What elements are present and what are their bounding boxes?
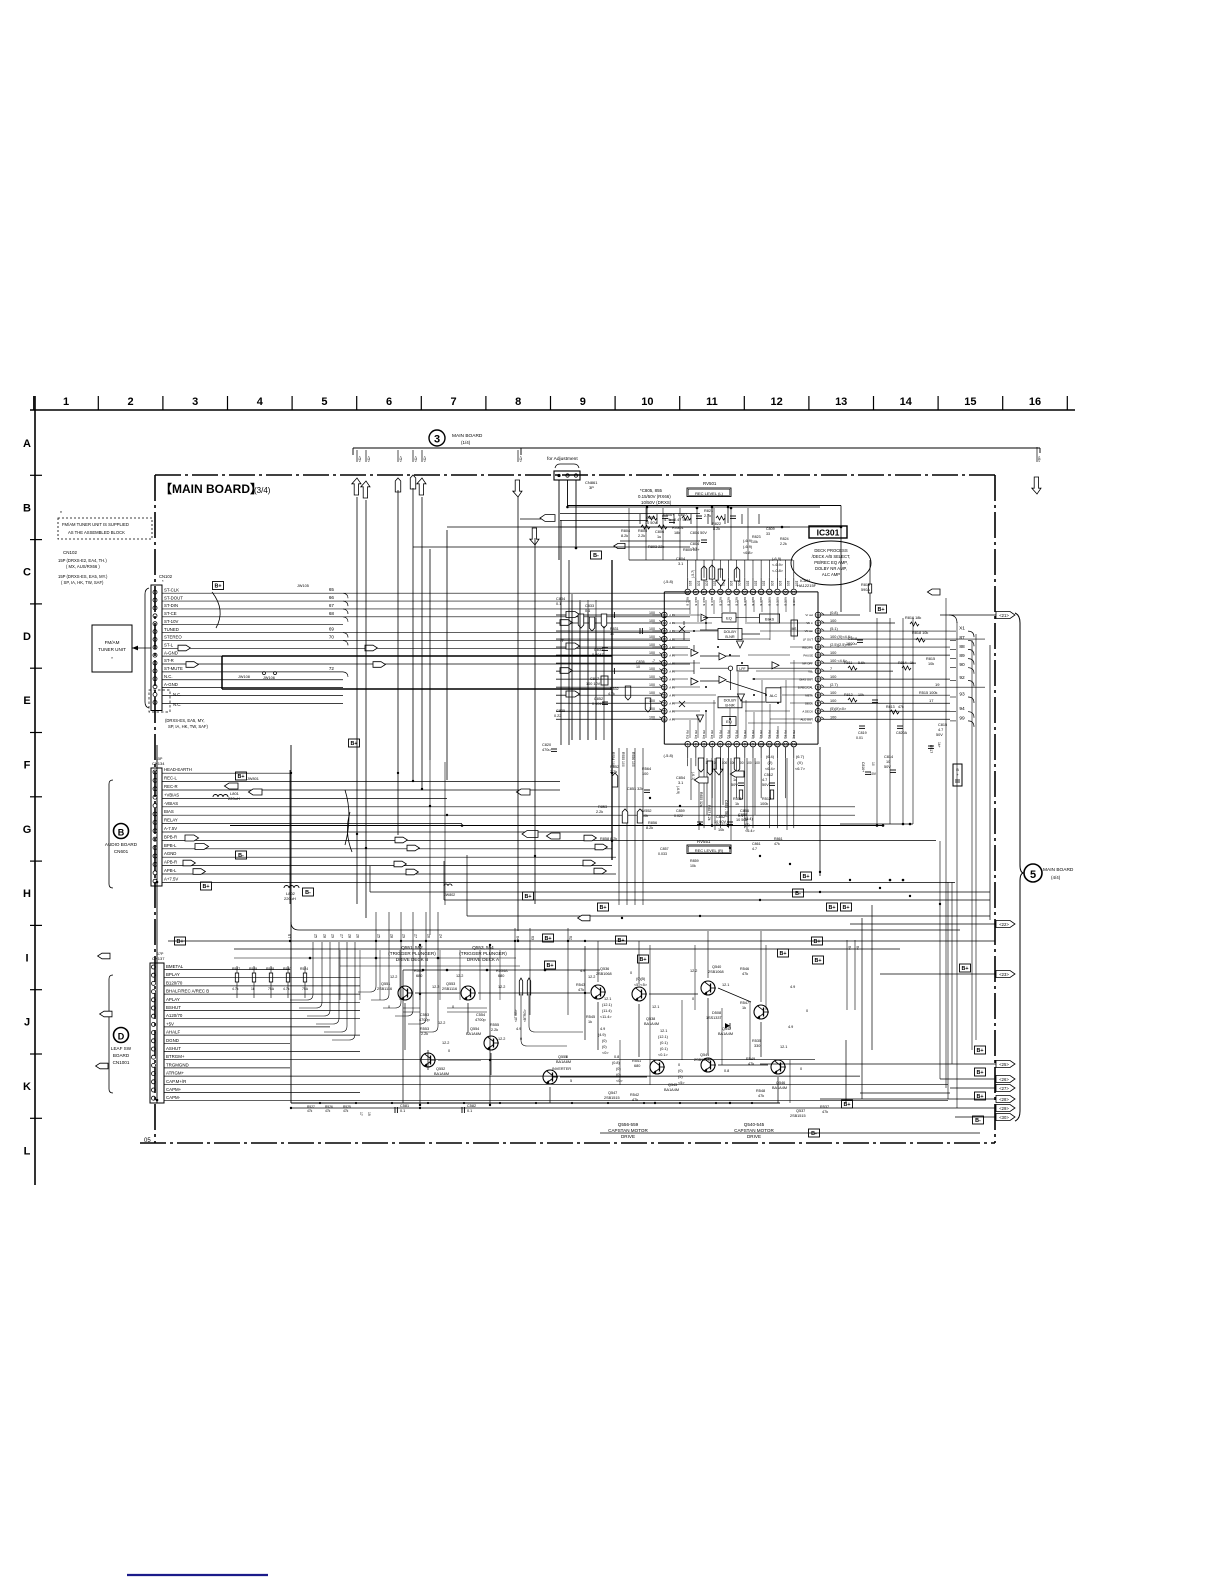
svg-text:R824: R824 — [780, 537, 789, 541]
svg-text:B+: B+ — [976, 1048, 983, 1054]
svg-text:R832: R832 — [610, 687, 619, 691]
svg-text:PB EQ: PB EQ — [718, 730, 722, 740]
svg-text:C857: C857 — [660, 847, 669, 851]
svg-text:52: 52 — [662, 686, 666, 690]
svg-text:10: 10 — [636, 665, 640, 669]
svg-text:(12.1): (12.1) — [602, 1003, 613, 1007]
svg-text:B-NR: B-NR — [725, 703, 735, 707]
svg-text:R831: R831 — [610, 627, 619, 631]
svg-text:C804: C804 — [690, 542, 699, 546]
svg-text:<26>: <26> — [999, 1077, 1009, 1082]
svg-text:REC B: REC B — [702, 597, 706, 606]
svg-text:12.2: 12.2 — [438, 1021, 445, 1025]
svg-text:47k: 47k — [307, 1109, 313, 1113]
svg-text:100: 100 — [649, 643, 655, 647]
svg-text:B-: B- — [975, 1118, 981, 1124]
svg-text:(-5.8): (-5.8) — [663, 579, 673, 584]
svg-text:<23>: <23> — [999, 972, 1009, 977]
svg-text:B: B — [118, 828, 125, 838]
svg-text:BHALF/REC A/REC B: BHALF/REC A/REC B — [166, 989, 209, 994]
svg-text:A-GND: A-GND — [164, 682, 178, 687]
svg-text:TRGMGND: TRGMGND — [166, 1062, 189, 1067]
svg-text:50V: 50V — [936, 733, 943, 737]
svg-text:AS THE ASSEMBLED BLOCK: AS THE ASSEMBLED BLOCK — [68, 530, 125, 535]
svg-text:10: 10 — [641, 396, 653, 408]
svg-text:A IN: A IN — [669, 677, 674, 681]
svg-text:(5): (5) — [678, 1075, 683, 1079]
svg-text:APB-R: APB-R — [164, 860, 177, 865]
svg-text:R859: R859 — [690, 859, 699, 863]
svg-text:14: 14 — [792, 743, 796, 747]
svg-text:(0): (0) — [678, 1069, 683, 1073]
svg-text:1u: 1u — [657, 535, 661, 539]
svg-text:DECK PROCESS: DECK PROCESS — [814, 548, 847, 553]
svg-text:A DECK: A DECK — [802, 709, 813, 713]
svg-text:44: 44 — [662, 622, 666, 626]
svg-text:4.9: 4.9 — [788, 1025, 793, 1029]
svg-text:12.2: 12.2 — [588, 975, 595, 979]
svg-text:470u: 470u — [542, 748, 550, 752]
svg-text:<0.1>: <0.1> — [658, 1053, 668, 1057]
svg-text:35: 35 — [743, 590, 747, 594]
svg-text:PB EQ: PB EQ — [775, 730, 779, 740]
svg-text:50V: 50V — [762, 783, 769, 787]
svg-text:30: 30 — [784, 590, 788, 594]
svg-text:TUNER UNIT: TUNER UNIT — [98, 647, 126, 652]
svg-text:47k: 47k — [325, 1109, 331, 1113]
svg-text:26: 26 — [816, 630, 820, 634]
svg-text:Q540: Q540 — [712, 965, 721, 969]
svg-text:72: 72 — [329, 666, 335, 671]
svg-text:100: 100 — [688, 581, 692, 587]
svg-text:100: 100 — [778, 581, 782, 587]
svg-text:220uH: 220uH — [228, 796, 240, 801]
svg-text:100: 100 — [745, 581, 749, 587]
svg-text:41: 41 — [694, 590, 698, 594]
svg-text:BPB-R: BPB-R — [164, 834, 177, 839]
svg-text:50: 50 — [662, 670, 666, 674]
svg-text:BOARD: BOARD — [113, 1053, 130, 1058]
svg-text:BIAS: BIAS — [164, 809, 174, 814]
svg-text:27: 27 — [414, 934, 418, 938]
svg-text:0.15/50V (RX66): 0.15/50V (RX66) — [638, 494, 671, 499]
svg-text:69: 69 — [329, 627, 335, 632]
svg-text:R822: R822 — [712, 522, 721, 526]
svg-text:B+: B+ — [524, 894, 531, 900]
svg-text:1k: 1k — [742, 1006, 746, 1010]
svg-text:A IN: A IN — [669, 693, 674, 697]
svg-text:100: 100 — [713, 581, 717, 587]
svg-text:R548: R548 — [756, 1089, 765, 1093]
svg-text:0.022: 0.022 — [674, 814, 683, 818]
svg-text:B+: B+ — [814, 958, 821, 964]
svg-text:49: 49 — [662, 662, 666, 666]
svg-text:MAIN BOARD: MAIN BOARD — [1043, 867, 1074, 873]
svg-text:10: 10 — [871, 762, 875, 766]
svg-text:24: 24 — [816, 646, 820, 650]
svg-text:100: 100 — [753, 581, 757, 587]
svg-text:12: 12 — [770, 396, 782, 408]
svg-text:2SB1515: 2SB1515 — [694, 1058, 710, 1062]
svg-text:C854: C854 — [676, 776, 685, 780]
svg-text:53: 53 — [662, 694, 666, 698]
svg-text:100: 100 — [786, 581, 790, 587]
svg-text:Q537: Q537 — [796, 1109, 805, 1113]
svg-text:12.1: 12.1 — [780, 1045, 787, 1049]
svg-text:R555: R555 — [490, 1023, 499, 1027]
svg-text:EQ: EQ — [726, 719, 732, 724]
svg-text:<27>: <27> — [999, 1086, 1009, 1091]
svg-text:12.2: 12.2 — [442, 1041, 449, 1045]
svg-text:FM/AM TUNER UNIT IS SUPPLIED: FM/AM TUNER UNIT IS SUPPLIED — [62, 522, 129, 527]
svg-text:4.9: 4.9 — [600, 1027, 605, 1031]
svg-text:D: D — [118, 1032, 125, 1042]
svg-text:1k: 1k — [588, 1020, 592, 1024]
svg-text:C832: C832 — [594, 648, 603, 652]
svg-text:6: 6 — [728, 743, 730, 747]
svg-text:C835: C835 — [556, 709, 565, 713]
svg-text:TUNED: TUNED — [164, 627, 179, 632]
svg-text:100: 100 — [649, 611, 655, 615]
svg-text:R541: R541 — [632, 1059, 641, 1063]
svg-text:BTRGM+: BTRGM+ — [166, 1054, 185, 1059]
svg-text:0: 0 — [388, 1005, 390, 1009]
svg-text:4.7k: 4.7k — [283, 987, 290, 991]
svg-text:3: 3 — [434, 434, 440, 446]
svg-text:RV501: RV501 — [703, 481, 717, 486]
svg-text:B+: B+ — [976, 1094, 983, 1100]
svg-text:<29>: <29> — [999, 1106, 1009, 1111]
svg-text:(2): (2) — [768, 760, 774, 765]
svg-text:28: 28 — [323, 934, 327, 938]
svg-text:C819: C819 — [858, 731, 867, 735]
svg-text:(-6.9): (-6.9) — [676, 786, 680, 794]
svg-text:100: 100 — [754, 761, 760, 765]
svg-text:12.2: 12.2 — [690, 969, 697, 973]
svg-text:B+: B+ — [961, 966, 968, 972]
svg-text:B+: B+ — [828, 905, 835, 911]
svg-text:ST-10V: ST-10V — [164, 619, 178, 624]
svg-text:JW106: JW106 — [263, 676, 275, 680]
svg-text:CAPSTAN MOTOR: CAPSTAN MOTOR — [608, 1128, 648, 1133]
svg-text:3P: 3P — [589, 485, 594, 490]
svg-text:17: 17 — [359, 1112, 363, 1116]
svg-text:100: 100 — [642, 772, 648, 776]
svg-text:R856: R856 — [648, 821, 657, 825]
svg-text:2SB1515: 2SB1515 — [790, 1114, 806, 1118]
svg-text:68: 68 — [329, 611, 335, 616]
svg-text:<28>: <28> — [999, 1097, 1009, 1102]
svg-text:A IN: A IN — [669, 653, 674, 657]
svg-text:(5.1): (5.1) — [830, 627, 839, 631]
svg-text:C: C — [23, 567, 31, 579]
svg-text:R549: R549 — [746, 1057, 755, 1061]
svg-text:20: 20 — [816, 678, 820, 682]
svg-text:R530: R530 — [283, 967, 291, 971]
svg-text:54: 54 — [662, 702, 666, 706]
svg-text:DRIVE: DRIVE — [621, 1134, 635, 1139]
svg-text:4: 4 — [257, 396, 264, 408]
svg-text:A-GND: A-GND — [164, 650, 178, 655]
svg-text:B-NR: B-NR — [725, 635, 735, 639]
svg-text:<BTRG>: <BTRG> — [523, 1009, 527, 1022]
svg-text:2.2k: 2.2k — [421, 1032, 428, 1036]
svg-text:LEAF SW: LEAF SW — [111, 1046, 132, 1051]
svg-text:0: 0 — [630, 971, 632, 975]
svg-text:14: 14 — [900, 396, 913, 408]
svg-text:R547: R547 — [740, 1001, 749, 1005]
svg-text:1k: 1k — [735, 802, 739, 806]
svg-text:(5)(X)<0>: (5)(X)<0> — [830, 707, 847, 711]
svg-text:B.REC/CAL: B.REC/CAL — [798, 685, 814, 689]
svg-text:28: 28 — [390, 934, 394, 938]
svg-text:33: 33 — [759, 590, 763, 594]
svg-text:for Adjustment: for Adjustment — [547, 456, 578, 462]
svg-text:100k: 100k — [760, 802, 768, 806]
svg-text:R542: R542 — [630, 1093, 639, 1097]
svg-text:680: 680 — [416, 974, 422, 978]
svg-text:ALC: ALC — [770, 693, 778, 698]
svg-text:4.7k: 4.7k — [232, 987, 239, 991]
svg-text:47k: 47k — [632, 1098, 638, 1102]
svg-text:PB EQ: PB EQ — [767, 730, 771, 740]
svg-text:2: 2 — [128, 396, 134, 408]
svg-text:ST-L: ST-L — [164, 642, 174, 647]
svg-text:PB EQ: PB EQ — [751, 730, 755, 740]
svg-text:0.01: 0.01 — [856, 736, 863, 740]
svg-text:ST-DIN: ST-DIN — [164, 603, 178, 608]
svg-text:13: 13 — [784, 743, 788, 747]
svg-text:1k: 1k — [251, 987, 255, 991]
svg-text:REC B: REC B — [775, 597, 779, 606]
svg-text:22: 22 — [816, 662, 820, 666]
svg-text:CN102: CN102 — [63, 550, 78, 555]
svg-text:10k: 10k — [752, 540, 758, 544]
svg-text:75A: 75A — [268, 987, 275, 991]
svg-text:B+: B+ — [976, 1070, 983, 1076]
svg-text:45: 45 — [662, 630, 666, 634]
svg-text:B+: B+ — [237, 774, 244, 780]
svg-text:C833: C833 — [585, 604, 594, 608]
svg-text:2SB1515: 2SB1515 — [604, 1096, 620, 1100]
svg-text:C859: C859 — [676, 809, 685, 813]
svg-text:67: 67 — [329, 603, 335, 608]
svg-text:C861: C861 — [752, 842, 761, 846]
svg-text:LPF: LPF — [739, 667, 745, 671]
svg-text:R819: R819 — [861, 583, 870, 587]
svg-text:ALC OUT: ALC OUT — [800, 717, 813, 721]
svg-text:(-5.7): (-5.7) — [691, 570, 695, 578]
svg-text:Q554: Q554 — [470, 1027, 479, 1031]
svg-text:31: 31 — [776, 590, 780, 594]
svg-text:3: 3 — [703, 743, 705, 747]
svg-text:-7: -7 — [652, 659, 655, 663]
svg-text:B+: B+ — [599, 905, 606, 911]
svg-text:NR OFF: NR OFF — [802, 661, 813, 665]
svg-text:N.C.: N.C. — [164, 674, 173, 679]
svg-text:Q546: Q546 — [776, 1081, 785, 1085]
svg-text:87: 87 — [959, 635, 965, 641]
svg-text:( SP, IA, HK, TW, SAF): ( SP, IA, HK, TW, SAF) — [61, 580, 104, 585]
svg-text:10V: 10V — [870, 772, 877, 776]
svg-text:0.0047: 0.0047 — [592, 702, 604, 706]
svg-text:100: 100 — [794, 581, 798, 587]
svg-text:A IN: A IN — [669, 701, 674, 705]
svg-text:R855 32k: R855 32k — [699, 792, 703, 807]
svg-text:B-: B- — [795, 891, 801, 897]
svg-text:19: 19 — [816, 686, 820, 690]
svg-text:<5>: <5> — [519, 456, 523, 462]
svg-text:REC-R: REC-R — [164, 784, 178, 789]
svg-text:100: 100 — [830, 691, 836, 695]
svg-text:ST-CLK: ST-CLK — [164, 587, 179, 592]
svg-text:1k+: 1k+ — [937, 742, 941, 748]
svg-text:94: 94 — [959, 706, 965, 712]
svg-text:16: 16 — [816, 710, 820, 714]
svg-text:15: 15 — [964, 396, 976, 408]
svg-text:<5>: <5> — [399, 456, 403, 462]
svg-text:REC-L: REC-L — [164, 776, 178, 781]
svg-text:97: 97 — [287, 934, 292, 939]
svg-text:K: K — [23, 1081, 31, 1093]
svg-text:62: 62 — [569, 936, 573, 940]
svg-text:4.7: 4.7 — [762, 778, 767, 782]
svg-text:MAIN BOARD: MAIN BOARD — [452, 433, 483, 439]
svg-text:-VBIAS: -VBIAS — [164, 801, 178, 806]
svg-text:47k: 47k — [758, 1094, 764, 1098]
svg-text:R564: R564 — [642, 767, 651, 771]
svg-text:21: 21 — [816, 670, 820, 674]
svg-text:C804: C804 — [676, 557, 685, 561]
svg-text:100: 100 — [830, 715, 836, 719]
svg-text:+VBIAS: +VBIAS — [164, 792, 179, 797]
svg-text:JW802: JW802 — [444, 893, 455, 897]
svg-text:A120/70: A120/70 — [166, 1013, 183, 1018]
svg-text:REC LEVEL (L): REC LEVEL (L) — [695, 491, 724, 496]
svg-text:C554: C554 — [476, 1013, 485, 1017]
svg-text:2.2k: 2.2k — [780, 542, 787, 546]
svg-text:26: 26 — [356, 934, 360, 938]
svg-text:CN134: CN134 — [152, 761, 165, 766]
svg-text:REC/PB: REC/PB — [802, 645, 813, 649]
svg-text:<0>: <0> — [602, 1051, 609, 1055]
svg-text:29: 29 — [402, 934, 406, 938]
svg-text:10k: 10k — [928, 662, 934, 666]
svg-text:APB-L: APB-L — [164, 868, 177, 873]
svg-text:34: 34 — [751, 590, 755, 594]
svg-text:<0>: <0> — [616, 1079, 623, 1083]
svg-text:(0): (0) — [602, 1045, 607, 1049]
svg-text:ALC AMP: ALC AMP — [822, 572, 840, 577]
svg-text:43: 43 — [662, 614, 666, 618]
svg-text:B+: B+ — [813, 939, 820, 945]
svg-text:A IN: A IN — [669, 685, 674, 689]
svg-text:JW105: JW105 — [297, 584, 309, 588]
svg-text:A IN: A IN — [669, 717, 674, 721]
svg-text:19: 19 — [367, 1112, 371, 1116]
svg-text:R857 6.2k: R857 6.2k — [707, 805, 711, 821]
svg-text:<25>: <25> — [999, 1062, 1009, 1067]
svg-text:APLAY: APLAY — [166, 997, 180, 1002]
svg-text:A: A — [23, 438, 31, 450]
svg-text:5: 5 — [1030, 869, 1036, 881]
svg-text:PB EQ: PB EQ — [710, 730, 714, 740]
svg-text:C582: C582 — [467, 1104, 476, 1108]
svg-text:0: 0 — [800, 1067, 802, 1071]
svg-text:DRIVE DECK A: DRIVE DECK A — [467, 957, 500, 962]
svg-text:0: 0 — [806, 1009, 808, 1013]
svg-text:100: 100 — [649, 707, 655, 711]
svg-text:(0): (0) — [616, 1067, 621, 1071]
svg-text:REC B: REC B — [694, 597, 698, 606]
svg-text:IC301: IC301 — [817, 528, 840, 538]
svg-text:46: 46 — [662, 638, 666, 642]
svg-text:C852: C852 — [594, 697, 603, 701]
svg-text:BA1A4M: BA1A4M — [772, 1086, 787, 1090]
svg-text:BA1A6M: BA1A6M — [434, 1072, 449, 1076]
svg-text:REC B: REC B — [767, 597, 771, 606]
svg-text:15P (DRXS-ES, EA5, MY.): 15P (DRXS-ES, EA5, MY.) — [58, 574, 108, 579]
svg-text:META: META — [805, 693, 813, 697]
svg-text:6: 6 — [386, 396, 392, 408]
svg-text:18: 18 — [816, 694, 820, 698]
svg-text:100: 100 — [770, 581, 774, 587]
svg-text:0.22: 0.22 — [554, 714, 561, 718]
svg-text:B+: B+ — [202, 884, 209, 890]
svg-text:(0): (0) — [616, 1073, 621, 1077]
svg-text:12.2: 12.2 — [390, 975, 397, 979]
svg-text:680: 680 — [498, 974, 504, 978]
svg-text:E: E — [23, 695, 30, 707]
svg-text:A IN: A IN — [669, 709, 674, 713]
svg-text:5: 5 — [719, 743, 721, 747]
svg-text:8: 8 — [744, 743, 746, 747]
svg-text:CAPM+: CAPM+ — [166, 1087, 182, 1092]
svg-text:0.1: 0.1 — [556, 602, 561, 606]
svg-text:29: 29 — [792, 590, 796, 594]
svg-text:STEREO: STEREO — [164, 635, 182, 640]
svg-text:ATRGM+: ATRGM+ — [166, 1071, 185, 1076]
svg-text:0.0047: 0.0047 — [592, 653, 604, 657]
svg-text:A+7.5V: A+7.5V — [164, 876, 178, 881]
svg-text:C804 50V: C804 50V — [690, 531, 707, 535]
svg-text:【MAIN BOARD】: 【MAIN BOARD】 — [160, 481, 262, 496]
svg-text:REC B: REC B — [784, 597, 788, 606]
svg-text:<30>: <30> — [999, 1115, 1009, 1120]
svg-text:DOLBY: DOLBY — [724, 630, 737, 634]
svg-text:C553: C553 — [420, 1013, 429, 1017]
svg-text:2.2k: 2.2k — [491, 1028, 498, 1032]
svg-text:12.2: 12.2 — [456, 974, 463, 978]
svg-text:G: G — [23, 824, 32, 836]
svg-text:47k: 47k — [748, 1062, 754, 1066]
svg-text:100: 100 — [830, 699, 836, 703]
svg-text:99: 99 — [959, 715, 965, 721]
svg-text:7: 7 — [830, 667, 832, 671]
svg-text:DOLBY NR AMP,: DOLBY NR AMP, — [815, 566, 847, 571]
svg-text:10/50V (DRXS): 10/50V (DRXS) — [641, 500, 672, 505]
svg-text:C851 32k: C851 32k — [627, 787, 643, 791]
svg-text:100: 100 — [649, 715, 655, 719]
svg-text:10 50V: 10 50V — [714, 820, 727, 824]
svg-text:<-0.8>: <-0.8> — [772, 569, 784, 573]
svg-text:27: 27 — [340, 934, 344, 938]
svg-text:HEAD-EARTH: HEAD-EARTH — [164, 767, 192, 772]
svg-text:64: 64 — [856, 946, 860, 950]
svg-text:(0.1): (0.1) — [660, 1041, 669, 1045]
svg-text:B-: B- — [305, 890, 311, 896]
svg-text:<5><5>: <5><5> — [634, 983, 648, 987]
